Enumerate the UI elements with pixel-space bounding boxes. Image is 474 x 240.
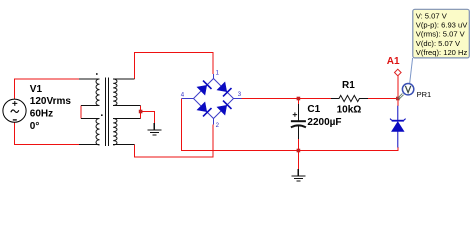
ac source V1 [3,99,26,122]
svg-text:10kΩ: 10kΩ [337,104,362,115]
svg-text:120Vrms: 120Vrms [30,96,72,107]
junction C1 top [297,97,301,101]
junction C1 bottom rail [297,149,301,153]
wire R1 to node A1 [368,98,398,100]
probe PR1 circle [402,84,413,95]
zener diode D5 [390,106,406,148]
wire bridge pin3 to R1 [242,98,332,100]
wire C1 top [297,99,299,106]
bridge rectifier diamond [182,74,242,125]
transformer polarity dot top [96,73,98,75]
svg-text:V(dc): 5.07 V: V(dc): 5.07 V [416,39,461,48]
wire primary series bracket [80,106,82,119]
diode D1 top-left [197,81,211,95]
transformer secondary coil top [113,79,117,106]
diode D4 bottom-right [217,101,231,115]
ground C1 [291,169,305,181]
svg-text:V: 5.07 V: V: 5.07 V [416,11,448,20]
capacitor C1 [291,104,306,139]
svg-text:PR1: PR1 [417,90,432,99]
svg-text:V1: V1 [30,84,43,95]
diode D2 top-right [217,82,231,96]
probe readout connector line [410,58,413,83]
resistor R1 [331,95,368,101]
transformer secondary coil bottom [113,119,117,146]
wire node A1 stub to connector [397,76,399,99]
wire secondary center-tap bracket [140,106,142,119]
ground center tap [147,123,161,135]
on-page connector A1 diamond [395,69,402,76]
svg-text:2200µF: 2200µF [307,117,341,128]
transformer pin leads [79,79,141,145]
probe PR1 V letter [405,86,410,93]
wire secondary top to bridge pin1 [134,53,213,80]
wire center tap to ground [141,112,155,126]
diode D3 bottom-left [197,102,211,116]
wire C1 bottom [297,138,299,151]
transformer primary coil bottom [96,119,100,146]
probe PR1 arrow [398,93,404,99]
svg-text:A1: A1 [387,56,400,67]
probe readout box [413,9,470,58]
capacitor C1 plus sign [293,112,297,116]
wire V1 bottom to transformer [15,123,80,145]
svg-text:V(p-p): 6.93 uV: V(p-p): 6.93 uV [416,21,468,30]
svg-text:60Hz: 60Hz [30,108,53,119]
junction node A1 [396,97,400,101]
wire C1 ground drop [297,151,299,171]
transformer polarity dot bottom [101,114,103,116]
transformer T1 [79,78,141,147]
wire node A1 down to zener [397,99,399,107]
junction center tap [139,110,143,114]
transformer core [106,78,109,147]
wire zener bottom [397,147,399,151]
svg-text:V(freq): 120 Hz: V(freq): 120 Hz [416,48,468,57]
wire bridge pin4 to bottom rail [182,99,399,151]
svg-text:V(rms): 5.07 V: V(rms): 5.07 V [416,30,466,39]
svg-text:R1: R1 [342,80,355,91]
wire secondary bottom to bridge pin2 [134,125,213,158]
svg-text:0°: 0° [30,121,40,132]
svg-text:C1: C1 [307,104,320,115]
transformer primary coil top [96,79,100,106]
wire V1 top to transformer [15,79,80,99]
